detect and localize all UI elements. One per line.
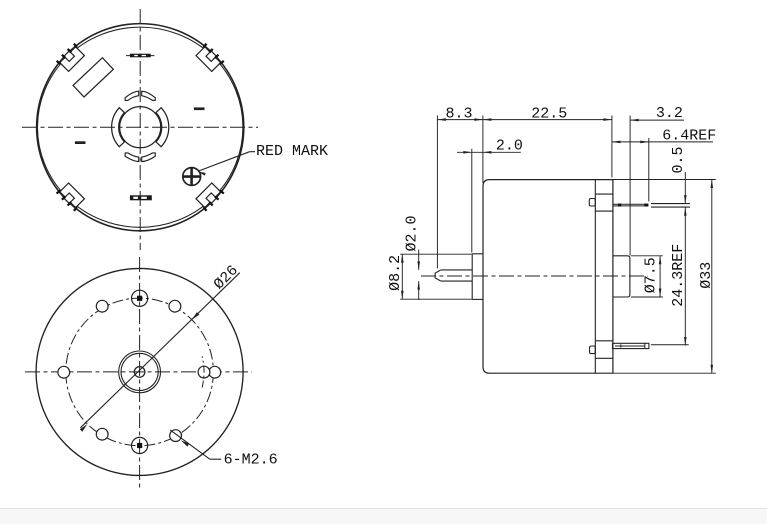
svg-text:6.4REF: 6.4REF: [662, 127, 716, 144]
svg-text:Ø7.5: Ø7.5: [643, 257, 660, 293]
svg-text:2.0: 2.0: [496, 138, 523, 155]
svg-text:Ø2.0: Ø2.0: [403, 215, 420, 251]
svg-text:8.3: 8.3: [445, 106, 472, 123]
svg-text:0.5: 0.5: [670, 146, 687, 173]
svg-text:22.5: 22.5: [531, 106, 567, 123]
svg-text:Ø8.2: Ø8.2: [387, 255, 404, 291]
svg-text:Ø26: Ø26: [211, 262, 242, 293]
svg-text:RED MARK: RED MARK: [256, 143, 328, 160]
svg-text:3.2: 3.2: [656, 105, 683, 122]
svg-text:Ø33: Ø33: [698, 262, 715, 289]
svg-text:6-M2.6: 6-M2.6: [224, 451, 278, 468]
svg-text:24.3REF: 24.3REF: [670, 244, 687, 307]
